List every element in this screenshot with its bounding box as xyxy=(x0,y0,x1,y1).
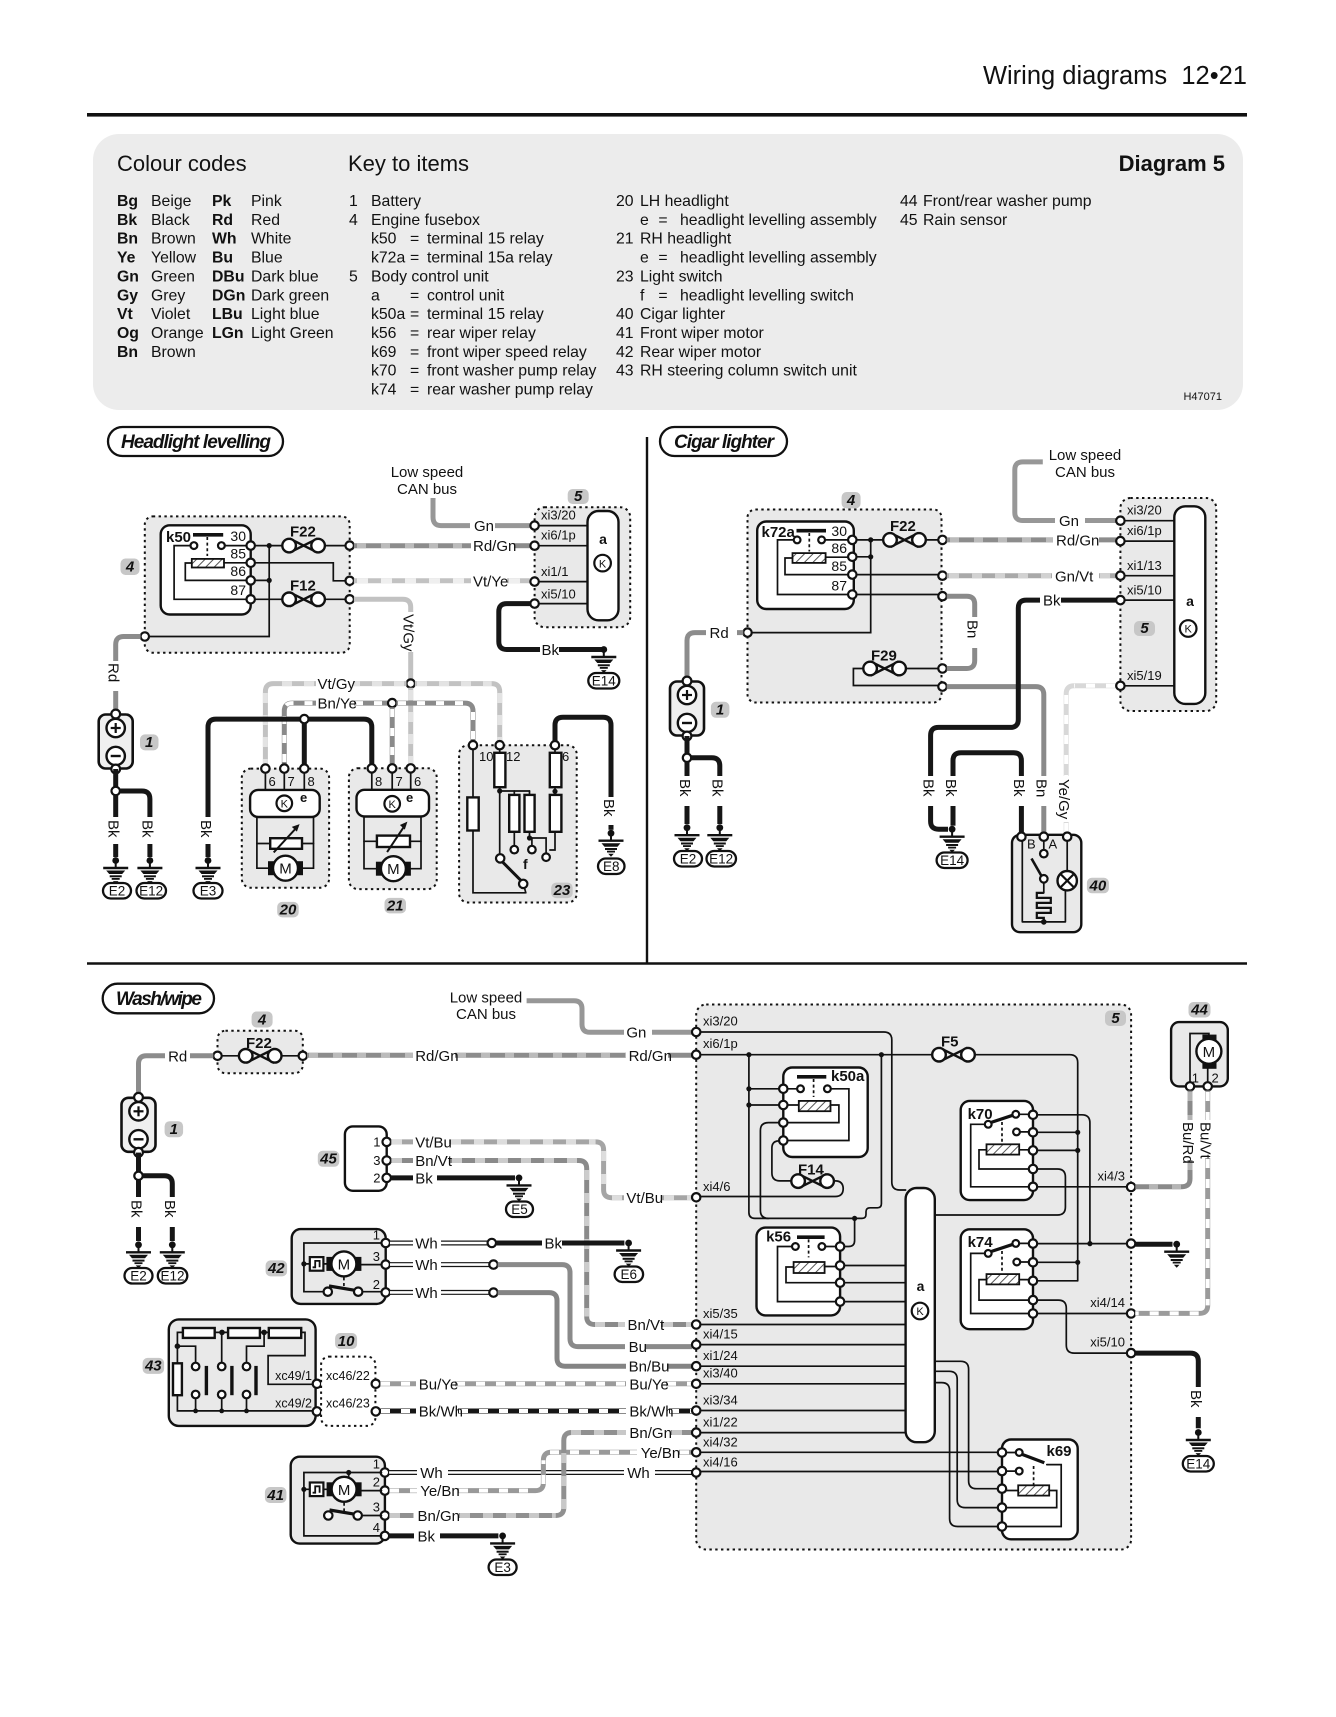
engine fusebox 4 (WW) xyxy=(218,1031,303,1074)
svg-text:Bk: Bk xyxy=(919,779,936,797)
svg-text:Og: Og xyxy=(117,325,139,342)
svg-text:=: = xyxy=(658,212,667,229)
wire Ye/Gy from xi5/19 to cigar lighter xyxy=(1066,686,1116,776)
svg-text:E12: E12 xyxy=(709,852,733,867)
svg-text:k72a: k72a xyxy=(762,524,796,541)
svg-text:E14: E14 xyxy=(592,674,617,689)
ground E14 (HL) xyxy=(591,646,616,673)
svg-text:=: = xyxy=(410,306,419,323)
svg-text:Front/rear washer pump: Front/rear washer pump xyxy=(923,193,1092,210)
svg-text:Vt/Gy: Vt/Gy xyxy=(400,614,417,652)
svg-text:21: 21 xyxy=(386,897,404,914)
svg-text:E2: E2 xyxy=(680,852,697,867)
ground E12 xyxy=(137,857,162,884)
svg-text:Green: Green xyxy=(151,268,195,285)
svg-text:xc46/22: xc46/22 xyxy=(326,1369,370,1383)
svg-text:k50: k50 xyxy=(371,231,397,248)
svg-text:=: = xyxy=(410,382,419,399)
svg-text:Gn: Gn xyxy=(626,1025,646,1042)
svg-text:RH steering column switch unit: RH steering column switch unit xyxy=(640,363,857,380)
svg-text:K: K xyxy=(1185,624,1193,636)
pins box5 HL xyxy=(539,526,588,604)
svg-text:k70: k70 xyxy=(371,363,397,380)
ground E14 (CL) xyxy=(940,826,965,853)
rain sensor 45 xyxy=(345,1126,387,1190)
svg-text:85: 85 xyxy=(831,558,847,574)
wire thin xi4/6 to F14 right xyxy=(700,1181,843,1197)
svg-text:4: 4 xyxy=(349,212,358,229)
svg-text:xi5/35: xi5/35 xyxy=(703,1306,738,1321)
svg-text:Bn: Bn xyxy=(117,231,138,248)
svg-text:10: 10 xyxy=(338,1333,355,1350)
svg-text:E3: E3 xyxy=(494,1560,511,1575)
svg-text:f: f xyxy=(523,856,528,872)
svg-text:20: 20 xyxy=(616,193,634,210)
svg-text:40: 40 xyxy=(616,306,634,323)
ground E3 xyxy=(196,857,221,884)
svg-text:terminal 15 relay: terminal 15 relay xyxy=(427,231,544,248)
svg-text:87: 87 xyxy=(831,578,847,594)
svg-text:M: M xyxy=(1203,1044,1216,1061)
relay k74 xyxy=(961,1229,1033,1329)
svg-text:Rd: Rd xyxy=(710,625,729,642)
svg-text:3: 3 xyxy=(373,1500,380,1515)
control unit a (HL) xyxy=(588,511,619,620)
wire pin30 to F22 and junction xyxy=(255,545,281,547)
wire CAN bus Gn xyxy=(433,498,470,526)
svg-text:k69: k69 xyxy=(371,344,397,361)
svg-text:Vt/Bu: Vt/Bu xyxy=(626,1190,663,1207)
body control unit 5 (CL) xyxy=(1120,498,1216,711)
svg-text:xi4/32: xi4/32 xyxy=(703,1435,738,1450)
svg-text:Bn/Gn: Bn/Gn xyxy=(629,1425,672,1442)
svg-text:xi1/24: xi1/24 xyxy=(703,1348,738,1363)
svg-text:Bk/Wh: Bk/Wh xyxy=(629,1404,673,1421)
svg-text:Bk: Bk xyxy=(161,1200,178,1218)
svg-text:Bu/Ye: Bu/Ye xyxy=(419,1376,459,1393)
battery 1 (WW) xyxy=(122,1093,156,1157)
wire Bu/Ye to xi3/40 xyxy=(380,1381,416,1386)
wire Bk cigar B pin to E14 (CL) xyxy=(1019,806,1024,833)
svg-text:Colour codes: Colour codes xyxy=(117,151,247,176)
battery 1 (CL) xyxy=(670,677,704,741)
svg-text:Bk: Bk xyxy=(117,212,137,229)
relay k50 xyxy=(161,525,251,614)
svg-text:xi3/20: xi3/20 xyxy=(541,508,576,523)
svg-text:k74: k74 xyxy=(371,382,397,399)
wire Bk 41pin4 to E3 xyxy=(389,1533,414,1538)
svg-text:Yellow: Yellow xyxy=(151,250,197,267)
svg-text:E12: E12 xyxy=(160,1269,184,1284)
wire Bn/Ye to 23 pin10 xyxy=(396,703,473,741)
svg-text:Bk: Bk xyxy=(415,1170,433,1187)
svg-text:K: K xyxy=(599,558,607,570)
engine fusebox 4 xyxy=(145,516,350,652)
control unit a (CL) xyxy=(1174,506,1205,704)
wire Wh 41pin1 to xi4/16 xyxy=(389,1470,417,1475)
svg-text:Rd/Gn: Rd/Gn xyxy=(629,1048,672,1065)
svg-text:Pink: Pink xyxy=(251,193,282,210)
svg-text:4: 4 xyxy=(373,1520,380,1535)
k56 pin1 up to rail xyxy=(844,1218,854,1246)
svg-text:xi6/1p: xi6/1p xyxy=(1127,523,1162,538)
svg-text:Cigar lighter: Cigar lighter xyxy=(674,432,776,453)
wire thin F5 line from xi6/1p xyxy=(700,1055,1077,1281)
svg-text:k50: k50 xyxy=(166,529,191,546)
svg-text:Rd: Rd xyxy=(212,212,233,229)
svg-text:Vt/Bu: Vt/Bu xyxy=(415,1134,452,1151)
svg-text:E8: E8 xyxy=(603,859,620,874)
svg-text:K: K xyxy=(916,1306,924,1318)
wire Ye/Bn 41pin2 to xi4/32 xyxy=(389,1488,417,1493)
svg-text:Bk: Bk xyxy=(542,642,560,659)
svg-text:xi1/13: xi1/13 xyxy=(1127,558,1162,573)
wire CAN bus Gn (CL) xyxy=(1015,462,1055,521)
k72a internal wiring xyxy=(778,540,849,595)
svg-text:xi3/20: xi3/20 xyxy=(1127,503,1162,518)
svg-text:85: 85 xyxy=(230,546,246,562)
svg-text:87: 87 xyxy=(230,582,246,598)
svg-text:Bn/Bu: Bn/Bu xyxy=(629,1359,670,1376)
svg-text:Bk: Bk xyxy=(105,820,122,838)
svg-text:headlight levelling assembly: headlight levelling assembly xyxy=(680,250,877,267)
svg-text:Orange: Orange xyxy=(151,325,204,342)
wire Wh 42pin1 + Bk to E6 xyxy=(390,1241,413,1246)
wire Bk branch to E12 (WW) xyxy=(143,1176,173,1197)
svg-text:e: e xyxy=(406,790,413,805)
ground E12 (CL) xyxy=(707,824,732,851)
svg-text:2: 2 xyxy=(1212,1071,1219,1086)
connector 10 xyxy=(321,1357,375,1426)
svg-text:Rear wiper motor: Rear wiper motor xyxy=(640,344,761,361)
svg-text:Bk: Bk xyxy=(197,820,214,838)
svg-text:a: a xyxy=(1186,593,1194,609)
svg-text:xi6/1p: xi6/1p xyxy=(703,1036,738,1051)
svg-text:Ye/Gy: Ye/Gy xyxy=(1055,779,1072,820)
svg-text:RH headlight: RH headlight xyxy=(640,231,732,248)
svg-text:Cigar lighter: Cigar lighter xyxy=(640,306,725,323)
svg-text:2: 2 xyxy=(373,1277,380,1292)
svg-text:=: = xyxy=(410,231,419,248)
svg-text:CAN bus: CAN bus xyxy=(1055,464,1115,481)
variable resistor (20) xyxy=(270,838,302,849)
svg-text:a: a xyxy=(371,287,380,304)
svg-text:A: A xyxy=(1049,837,1058,852)
svg-text:Rd/Gn: Rd/Gn xyxy=(1056,533,1099,550)
svg-text:6: 6 xyxy=(269,774,276,789)
svg-text:xi5/10: xi5/10 xyxy=(541,587,576,602)
wire Bk motors to E3 xyxy=(208,719,372,817)
node Vt/Ye out xyxy=(346,577,354,585)
node F22 out xyxy=(346,541,354,549)
svg-text:e: e xyxy=(300,790,307,805)
wire Vt/Ye xyxy=(354,578,471,583)
motor M (20) xyxy=(268,856,303,881)
svg-text:Bk: Bk xyxy=(709,779,726,797)
wire Bk 45pin2 to E5 xyxy=(391,1175,413,1180)
svg-text:LGn: LGn xyxy=(212,325,244,342)
svg-text:Ye: Ye xyxy=(117,250,136,267)
svg-text:terminal 15a relay: terminal 15a relay xyxy=(427,250,553,267)
svg-text:LBu: LBu xyxy=(212,306,243,323)
svg-text:Bu: Bu xyxy=(212,250,233,267)
svg-text:xi4/3: xi4/3 xyxy=(1098,1169,1125,1184)
wire Bn/Gn 41pin3 to xi1/22 xyxy=(389,1513,414,1518)
wire Vt/Gy from F12 down xyxy=(354,599,411,612)
k50a pin4 to F14 left xyxy=(772,1141,791,1181)
svg-text:Black: Black xyxy=(151,212,190,229)
svg-text:2: 2 xyxy=(373,1475,380,1490)
svg-text:Gn: Gn xyxy=(117,268,139,285)
svg-text:LH headlight: LH headlight xyxy=(640,193,729,210)
svg-text:Front wiper motor: Front wiper motor xyxy=(640,325,764,342)
badge 23 xyxy=(551,883,573,899)
node Vt/Gy junction xyxy=(407,679,415,687)
svg-text:f: f xyxy=(640,287,645,304)
svg-text:Bk: Bk xyxy=(139,820,156,838)
box5 WW right pins xyxy=(1127,1183,1135,1191)
svg-text:5: 5 xyxy=(1140,620,1149,637)
svg-text:Gy: Gy xyxy=(117,287,138,304)
svg-text:4: 4 xyxy=(846,492,856,509)
svg-text:5: 5 xyxy=(574,488,583,505)
svg-text:Pk: Pk xyxy=(212,193,232,210)
wire Bk battery down xyxy=(113,769,118,787)
pins box5 CL xyxy=(1125,521,1175,686)
wire Bu/Vt 44pin2 to xi4/14 xyxy=(1205,1091,1210,1120)
svg-text:k74: k74 xyxy=(968,1234,994,1251)
svg-text:=: = xyxy=(410,344,419,361)
svg-text:xi1/22: xi1/22 xyxy=(703,1415,738,1430)
svg-text:1: 1 xyxy=(170,1121,178,1138)
svg-text:Key to items: Key to items xyxy=(348,151,469,176)
svg-text:44: 44 xyxy=(900,193,918,210)
svg-text:headlight levelling assembly: headlight levelling assembly xyxy=(680,212,877,229)
wire Rd battery to box4 (WW) xyxy=(190,1053,213,1058)
rear wiper motor 42 xyxy=(292,1229,386,1304)
svg-text:5: 5 xyxy=(1111,1010,1120,1027)
panel title Headlight levelling xyxy=(108,427,283,456)
svg-text:1: 1 xyxy=(716,702,724,719)
svg-text:Gn/Vt: Gn/Vt xyxy=(1055,569,1094,586)
svg-text:23: 23 xyxy=(616,268,634,285)
svg-text:xi3/34: xi3/34 xyxy=(703,1393,738,1408)
svg-text:Bn: Bn xyxy=(964,620,981,638)
wire Bk mid ground xyxy=(1135,1242,1172,1247)
svg-text:40: 40 xyxy=(1089,877,1107,894)
svg-text:Wh: Wh xyxy=(415,1236,438,1253)
svg-text:a: a xyxy=(599,531,607,547)
svg-text:Bk: Bk xyxy=(545,1236,563,1253)
relay k50a xyxy=(783,1068,867,1158)
svg-text:4: 4 xyxy=(125,559,135,576)
svg-text:xc46/23: xc46/23 xyxy=(326,1397,370,1411)
svg-text:K: K xyxy=(389,799,397,811)
svg-text:6: 6 xyxy=(562,749,569,764)
svg-text:e: e xyxy=(640,250,649,267)
svg-text:CAN bus: CAN bus xyxy=(456,1006,516,1023)
svg-text:xi3/20: xi3/20 xyxy=(703,1014,738,1029)
wire Bn loop pin87 to F29 xyxy=(947,596,975,617)
ground E2 xyxy=(103,857,128,884)
svg-text:1: 1 xyxy=(145,734,153,751)
svg-text:E2: E2 xyxy=(109,884,126,899)
svg-text:1: 1 xyxy=(373,1228,380,1243)
node Rd in (CL) xyxy=(743,628,751,636)
svg-text:xi4/16: xi4/16 xyxy=(703,1455,738,1470)
wire CAN bus Gn (WW) xyxy=(527,1001,624,1033)
svg-text:White: White xyxy=(251,231,292,248)
svg-text:21: 21 xyxy=(616,231,634,248)
badge 20 xyxy=(277,902,299,918)
svg-text:Wh: Wh xyxy=(212,231,237,248)
svg-text:1: 1 xyxy=(349,193,358,210)
svg-text:=: = xyxy=(410,287,419,304)
svg-text:4: 4 xyxy=(257,1011,267,1028)
svg-text:Bg: Bg xyxy=(117,193,138,210)
relay k56 xyxy=(757,1228,841,1316)
k50a pin3 down to rail xyxy=(760,1123,779,1219)
svg-text:23: 23 xyxy=(553,882,571,899)
svg-text:Vt: Vt xyxy=(117,306,134,323)
svg-text:Bk: Bk xyxy=(1187,1390,1204,1408)
svg-text:Rd: Rd xyxy=(105,663,122,682)
svg-text:Wiring diagrams 12•21: Wiring diagrams 12•21 xyxy=(983,62,1247,90)
wire Bu/Rd 44pin1 to xi4/3 xyxy=(1188,1091,1193,1120)
svg-text:front wiper speed relay: front wiper speed relay xyxy=(427,344,587,361)
svg-text:xi1/1: xi1/1 xyxy=(541,564,568,579)
svg-text:a: a xyxy=(917,1278,925,1294)
svg-text:Body control unit: Body control unit xyxy=(371,268,489,285)
svg-text:xi4/6: xi4/6 xyxy=(703,1179,730,1194)
svg-text:Light blue: Light blue xyxy=(251,306,320,323)
svg-text:43: 43 xyxy=(144,1358,162,1375)
svg-text:Bk: Bk xyxy=(676,779,693,797)
svg-text:terminal 15 relay: terminal 15 relay xyxy=(427,306,544,323)
svg-text:45: 45 xyxy=(319,1151,337,1168)
svg-text:Vt/Gy: Vt/Gy xyxy=(318,676,356,693)
svg-text:xi6/1p: xi6/1p xyxy=(541,528,576,543)
cigar lighter 40 xyxy=(1012,835,1081,932)
svg-text:E2: E2 xyxy=(130,1269,147,1284)
svg-text:1: 1 xyxy=(373,1457,380,1472)
svg-text:Bu: Bu xyxy=(629,1339,647,1356)
svg-text:Wh: Wh xyxy=(415,1285,438,1302)
wire Bn/Ye to 21 pin7 xyxy=(390,707,395,764)
svg-text:E5: E5 xyxy=(511,1202,528,1217)
a output to k70 pin4 xyxy=(935,1169,1066,1215)
svg-text:Bk: Bk xyxy=(600,799,617,817)
node F12 out xyxy=(346,595,354,603)
k74 pin routing xyxy=(1037,1243,1127,1245)
engine fusebox 4 (CL) xyxy=(748,510,942,703)
svg-text:control unit: control unit xyxy=(427,287,505,304)
k50 pins xyxy=(247,541,255,549)
switch lever f xyxy=(496,854,504,862)
relay k69 xyxy=(1002,1440,1078,1540)
svg-text:Battery: Battery xyxy=(371,193,421,210)
relay k72a xyxy=(757,522,854,610)
wire Bk battery down (CL) xyxy=(685,736,690,754)
svg-text:F29: F29 xyxy=(871,648,897,665)
svg-text:Red: Red xyxy=(251,212,280,229)
svg-text:Bk: Bk xyxy=(127,1200,144,1218)
svg-text:44: 44 xyxy=(1190,1002,1208,1019)
svg-text:=: = xyxy=(658,250,667,267)
svg-text:3: 3 xyxy=(373,1249,380,1264)
svg-text:Rd: Rd xyxy=(168,1048,187,1065)
node motor gnd junction xyxy=(300,715,308,723)
svg-text:Blue: Blue xyxy=(251,250,283,267)
panel title Cigar lighter xyxy=(660,427,787,456)
badge 4 (CL) xyxy=(842,492,861,509)
svg-text:Rd/Gn: Rd/Gn xyxy=(415,1048,458,1065)
svg-text:K: K xyxy=(281,799,289,811)
levelling assembly e (21) xyxy=(357,790,430,817)
svg-text:7: 7 xyxy=(288,774,295,789)
wire Vt/Bu 45pin1 to xi4/6 xyxy=(391,1139,413,1144)
svg-text:Engine fusebox: Engine fusebox xyxy=(371,212,480,229)
motor M (21) xyxy=(376,856,411,881)
wire Bn/Ye xyxy=(284,703,316,764)
svg-text:10: 10 xyxy=(479,749,493,764)
svg-text:xi3/40: xi3/40 xyxy=(703,1366,738,1381)
svg-text:DGn: DGn xyxy=(212,287,245,304)
svg-text:Bn: Bn xyxy=(117,344,138,361)
svg-text:B: B xyxy=(1027,837,1036,852)
svg-text:Dark green: Dark green xyxy=(251,287,329,304)
ground E12 (WW) xyxy=(160,1241,185,1268)
svg-text:xi5/19: xi5/19 xyxy=(1127,668,1162,683)
svg-text:xc49/2: xc49/2 xyxy=(275,1397,312,1411)
svg-text:Bk: Bk xyxy=(942,779,959,797)
svg-text:5: 5 xyxy=(349,268,358,285)
wire Bk 23 pin6 to E8 xyxy=(555,717,611,797)
svg-text:=: = xyxy=(410,325,419,342)
svg-text:Bk: Bk xyxy=(1043,593,1061,610)
wire Vt/Gy left to 20 pin6 xyxy=(353,681,407,686)
svg-text:xi4/14: xi4/14 xyxy=(1090,1295,1125,1310)
wire thin Gn internal xyxy=(700,1032,905,1190)
svg-text:k56: k56 xyxy=(371,325,397,342)
battery 1 xyxy=(99,710,133,774)
svg-text:E14: E14 xyxy=(940,853,965,868)
svg-text:Low speed: Low speed xyxy=(1049,447,1122,464)
wire pin87 to F12 xyxy=(255,598,281,600)
wire Vt/Gy down to 21 pin6 xyxy=(408,688,413,764)
svg-text:CAN bus: CAN bus xyxy=(397,481,457,498)
svg-text:Wh: Wh xyxy=(627,1465,650,1482)
svg-text:3: 3 xyxy=(373,1153,380,1168)
svg-text:E6: E6 xyxy=(621,1267,638,1282)
svg-text:Rd/Gn: Rd/Gn xyxy=(473,538,516,555)
ground E2 (WW) xyxy=(126,1241,151,1268)
wire Rd battery to fusebox xyxy=(116,637,141,662)
RH headlight unit 21 xyxy=(349,768,437,889)
svg-text:2: 2 xyxy=(373,1171,380,1186)
svg-text:Bn/Ye: Bn/Ye xyxy=(318,696,358,713)
svg-text:rear wiper relay: rear wiper relay xyxy=(427,325,536,342)
node Bn/Ye junction xyxy=(388,699,396,707)
wire Rd/Gn xyxy=(354,543,471,548)
svg-text:F5: F5 xyxy=(941,1034,959,1051)
svg-text:20: 20 xyxy=(279,901,297,918)
wire pin87 to Bn node xyxy=(857,594,939,596)
svg-text:86: 86 xyxy=(230,563,246,579)
k50 internal wiring xyxy=(174,546,246,600)
wire Bk xi5/10 to E14 (WW) xyxy=(1135,1353,1198,1387)
svg-text:1: 1 xyxy=(373,1135,380,1150)
